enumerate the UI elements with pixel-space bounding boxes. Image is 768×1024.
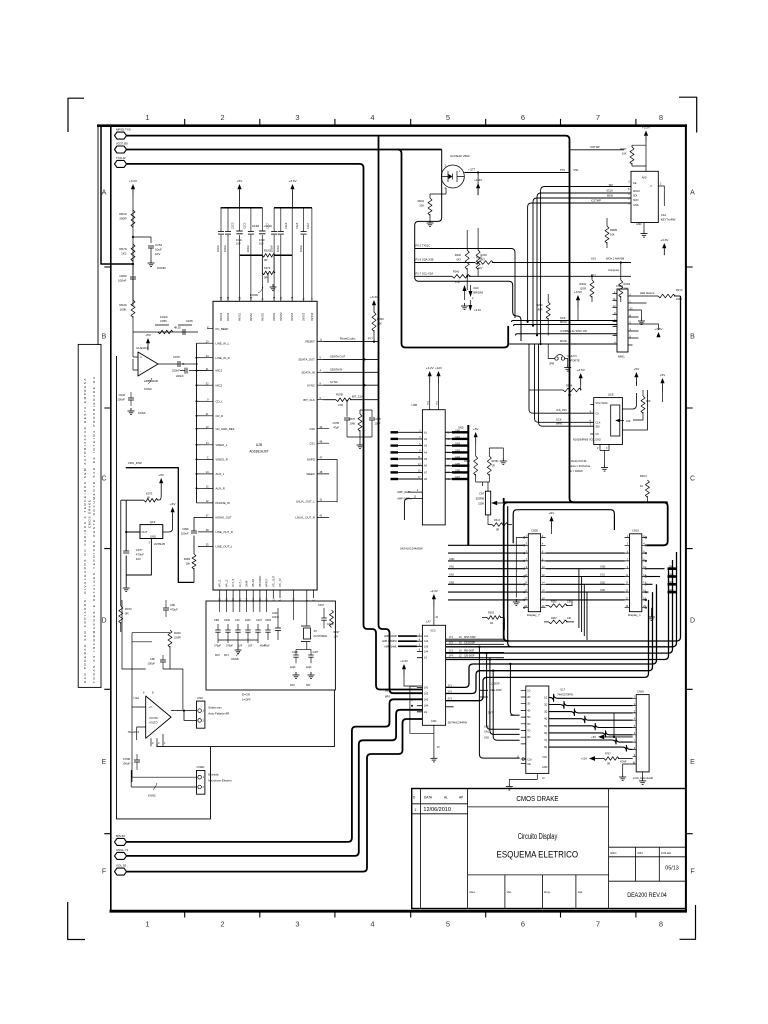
svg-text:GND: GND (633, 204, 639, 207)
U20 bottom pins (220, 590, 314, 598)
svg-text:MONO_OUT: MONO_OUT (216, 516, 232, 520)
capacitor C07B (346, 400, 348, 417)
frame row ticks left (104, 267, 111, 834)
svg-text:KON0: KON0 (138, 411, 146, 415)
U17 feeder GN1 (490, 660, 520, 735)
svg-text:2A1: 2A1 (424, 686, 429, 689)
svg-text:4K15: 4K15 (174, 326, 181, 330)
svg-text:AP: AP (459, 796, 463, 800)
svg-text:AD1881AJST: AD1881AJST (249, 450, 268, 454)
svg-text:OE: OE (527, 763, 531, 766)
svg-text:GND: GND (431, 720, 437, 723)
junction dots i2c (466, 275, 468, 277)
resistor R2NN (487, 456, 491, 476)
resistor R3D4 (619, 280, 623, 297)
svg-text:10uF: 10uF (236, 238, 242, 242)
svg-text:100nF: 100nF (277, 244, 280, 252)
svg-text:2: 2 (220, 920, 224, 929)
svg-text:SCLK: SCLK (606, 189, 613, 193)
capacitor C90 (163, 607, 169, 609)
wire top right stub (570, 149, 624, 151)
svg-text:SYNC: SYNC (330, 380, 338, 384)
svg-text:200R: 200R (119, 217, 127, 221)
resistor R0NB (605, 226, 609, 243)
resistor R064 (563, 388, 581, 392)
svg-text:K273: K273 (264, 266, 271, 270)
power +6V mid (171, 507, 175, 512)
U17 left pins (521, 690, 526, 744)
svg-text:CD_GND_REF: CD_GND_REF (216, 427, 235, 431)
svg-text:VCC: VCC (430, 630, 435, 633)
MW1 left pins (613, 294, 618, 345)
svg-text:R202: R202 (455, 253, 462, 257)
svg-text:KP0: KP0 (215, 654, 220, 657)
U20 left pins (207, 329, 213, 547)
svg-text:DIN.: DIN. (638, 851, 644, 855)
svg-text:VIDEO_R: VIDEO_R (216, 458, 228, 462)
svg-text:13K: 13K (567, 601, 572, 604)
resistor R07B bit clock (323, 399, 336, 401)
svg-text:6Q: 6Q (544, 732, 547, 735)
svg-text:C1E3: C1E3 (285, 222, 288, 229)
wire LINE_OUT (198, 532, 207, 547)
svg-text:GND: GND (458, 427, 464, 430)
svg-text:AVSS3: AVSS3 (261, 313, 264, 321)
svg-text:GN3: GN3 (669, 589, 675, 592)
svg-text:LINE_IN_L: LINE_IN_L (216, 341, 230, 345)
svg-text:R0NB: R0NB (610, 228, 617, 232)
svg-text:+: + (140, 356, 142, 360)
svg-text:P1-5 SDA-X3B: P1-5 SDA-X3B (416, 258, 434, 262)
svg-text:A: A (690, 190, 695, 197)
capacitors cap bank (218, 232, 224, 235)
svg-text:XTL_IN: XTL_IN (279, 578, 282, 587)
U1B pins left (590, 405, 594, 435)
capacitor C050 (132, 260, 134, 275)
svg-text:74HC573PW: 74HC573PW (557, 693, 573, 697)
svg-text:8Q: 8Q (544, 746, 547, 749)
svg-text:C070: C070 (173, 355, 180, 359)
svg-text:R3x3: R3x3 (494, 519, 500, 522)
svg-text:R2NN: R2NN (492, 460, 499, 463)
svg-text:U4B: U4B (412, 403, 418, 407)
power +12V U40 (436, 371, 440, 376)
svg-text:OUT: OUT (142, 530, 148, 534)
svg-text:CN1: CN1 (600, 574, 605, 577)
svg-text:TX0.J2: TX0.J2 (116, 156, 126, 160)
svg-text:CD_L: CD_L (216, 399, 224, 403)
svg-text:LCD_CELULAR: LCD_CELULAR (633, 776, 653, 780)
svg-text:3: 3 (295, 920, 299, 929)
svg-text:DATA: DATA (424, 796, 433, 800)
capacitor C070 (158, 363, 178, 365)
trimmer CN7 (485, 491, 490, 515)
svg-text:C050: C050 (119, 274, 127, 278)
svg-text:MOSI: MOSI (560, 339, 567, 343)
U17 feeder GN2 (493, 671, 519, 741)
svg-text:+5V: +5V (549, 511, 556, 515)
svg-text:10pF: 10pF (375, 422, 381, 426)
frame row ticks right (686, 267, 693, 834)
svg-text:370pF: 370pF (214, 645, 222, 648)
cap bank wires right (274, 208, 312, 301)
bus wire I/O37 drop (398, 150, 509, 348)
power +3.2V U40 (428, 371, 432, 376)
U17 feeder DVT (510, 664, 514, 715)
svg-text:LED Alarme: LED Alarme (640, 291, 655, 295)
svg-text:100nF: 100nF (117, 398, 125, 402)
svg-text:R3Y2: R3Y2 (676, 288, 683, 292)
svg-text:AMP_/AMP: AMP_/AMP (397, 491, 410, 494)
resistor R076 (358, 414, 362, 431)
svg-text:R040: R040 (119, 303, 127, 307)
svg-text:C097: C097 (318, 604, 325, 607)
resistor R072 (119, 606, 123, 623)
resistor K273 (262, 271, 275, 275)
jumper JPM (555, 357, 558, 360)
electroly cap C097b (275, 627, 281, 629)
svg-text:KONF: KONF (620, 762, 627, 764)
svg-text:0R: 0R (568, 393, 571, 397)
wire to C151 (133, 237, 151, 243)
svg-text:LA7: LA7 (426, 620, 431, 624)
svg-text:R263: R263 (536, 303, 543, 307)
svg-text:SDI: SDI (633, 195, 637, 198)
svg-text:BIT_CLK: BIT_CLK (352, 395, 363, 399)
frame top border (97, 124, 687, 127)
svg-text:Q19: Q19 (150, 520, 156, 524)
svg-text:C1E7: C1E7 (307, 222, 310, 229)
svg-text:100uF: 100uF (122, 762, 130, 766)
wire MOSI (508, 343, 617, 345)
svg-text:C: C (630, 300, 632, 303)
svg-text:+3.3V: +3.3V (660, 238, 669, 242)
wire RESET (323, 341, 378, 343)
svg-text:Display_7: Display_7 (527, 613, 540, 617)
latch U17 body (526, 686, 549, 773)
svg-text:VOUTA: VOUTA (149, 716, 158, 720)
svg-text:GN1: GN1 (455, 436, 461, 439)
svg-text:2A4: 2A4 (424, 705, 429, 708)
U20 left pin labels (216, 327, 235, 549)
display bus risers right (446, 296, 681, 641)
U1B bottom pins (600, 445, 609, 465)
U40 top wires (430, 383, 439, 410)
wire MONO_OUT (194, 516, 207, 518)
svg-text:16V: 16V (259, 242, 264, 246)
latch U1B (594, 398, 623, 445)
svg-text:KON2: KON2 (148, 794, 156, 798)
capacitors 22pF (293, 654, 298, 656)
svg-text:Eng.: Eng. (544, 890, 550, 894)
svg-text:220nF: 220nF (176, 374, 184, 378)
svg-text:R0S0: R0S0 (377, 317, 384, 321)
svg-text:SYNC: SYNC (307, 383, 315, 387)
svg-text:CS1: CS1 (309, 441, 315, 445)
svg-text:C046: C046 (119, 393, 126, 397)
resistor K071 (121, 499, 144, 501)
svg-text:IMPORTE: IMPORTE (568, 359, 580, 363)
svg-text:10uF: 10uF (259, 238, 265, 242)
resistor R3Y2 (658, 294, 675, 298)
svg-text:C79M: C79M (123, 757, 131, 761)
svg-text:22pF: 22pF (306, 666, 312, 669)
resistor R044 (430, 188, 446, 198)
svg-text:+5V: +5V (660, 373, 667, 377)
svg-text:Apr.: Apr. (578, 890, 584, 894)
resistor R303 (487, 616, 501, 620)
svg-text:1202: 1202 (272, 612, 278, 615)
svg-text:+3.5V: +3.5V (654, 327, 663, 331)
svg-text:2Y2: 2Y2 (448, 691, 453, 694)
keypad IC U10 (631, 171, 658, 222)
svg-text:5: 5 (446, 920, 450, 929)
wire bundle left of U17 (480, 690, 488, 697)
power +3.3V IR (476, 183, 480, 188)
label KON0 (148, 378, 152, 384)
svg-text:SCK: SCK (560, 316, 566, 320)
ground u40r (502, 458, 504, 461)
SPI risers (528, 203, 631, 322)
svg-text:/CS_P01: /CS_P01 (556, 408, 567, 412)
svg-text:R262: R262 (551, 601, 557, 604)
trimmer inside U1B (611, 405, 620, 436)
title block revision table (420, 789, 422, 909)
svg-text:AMP /1AMPLI: AMP /1AMPLI (382, 640, 397, 643)
svg-text:1: 1 (145, 920, 149, 929)
wire into opamp (132, 316, 134, 357)
svg-text:AMP /1AML: AMP /1AML (384, 645, 397, 648)
svg-text:12/06/2010: 12/06/2010 (423, 807, 451, 813)
svg-text:10K: 10K (646, 399, 651, 403)
svg-text:SDATA IN: SDATA IN (330, 367, 342, 371)
svg-text:100nF: 100nF (272, 616, 280, 619)
svg-text:Entrada: Entrada (208, 773, 219, 777)
svg-text:0,8x4(x=C0,5k: 0,8x4(x=C0,5k (569, 459, 587, 463)
svg-text:5D: 5D (527, 716, 530, 719)
buffer U40 body (422, 410, 445, 525)
wire r212 r2nn (476, 448, 504, 482)
power +3.5V spi (576, 295, 580, 300)
U10 left pin labels (633, 182, 641, 207)
svg-text:DVT: DVT (488, 712, 493, 715)
svg-text:3: 3 (295, 113, 299, 122)
svg-text:MW1: MW1 (618, 355, 625, 359)
svg-text:R07B: R07B (336, 393, 343, 397)
svg-text:A00: A00 (642, 176, 647, 180)
svg-text:Faixa = 33 Portas: Faixa = 33 Portas (569, 464, 591, 468)
svg-text:CN7: CN7 (479, 492, 485, 496)
IR receiver box route (415, 150, 521, 342)
svg-text:0R: 0R (496, 529, 499, 532)
svg-text:7D: 7D (527, 730, 530, 733)
svg-text:C9F: C9F (150, 657, 155, 661)
svg-text:GN3: GN3 (449, 581, 455, 584)
svg-text:SDATA OUT: SDATA OUT (330, 354, 346, 358)
connector CN20 (636, 695, 649, 772)
MW1 right pins (628, 296, 633, 345)
svg-text:GND: GND (542, 766, 548, 769)
svg-text:470uF: 470uF (170, 608, 178, 612)
ground DA0 (464, 303, 466, 306)
svg-text:GN1: GN1 (669, 566, 675, 569)
svg-text:PT6: PT6 (560, 168, 565, 172)
power +3.5V U10 (644, 131, 648, 136)
audio section return wire (157, 690, 334, 747)
svg-text:U17: U17 (560, 688, 565, 692)
svg-text:WOe 2 MAVD8: WOe 2 MAVD8 (606, 257, 625, 261)
svg-text:C/D-DISP: C/D-DISP (464, 655, 475, 658)
svg-text:1A1: 1A1 (424, 635, 429, 638)
svg-text:CLK: CLK (527, 759, 532, 762)
svg-text:MPS: MPS (385, 696, 391, 699)
svg-text:+3.2V: +3.2V (129, 179, 138, 183)
svg-text:P1-7 SCL-X3A: P1-7 SCL-X3A (416, 271, 434, 275)
svg-text:220uF: 220uF (181, 532, 189, 536)
svg-text:AL: AL (444, 796, 448, 800)
power +5V opamp (146, 338, 150, 343)
svg-text:R076: R076 (349, 417, 356, 421)
svg-text:220nF: 220nF (172, 369, 180, 373)
svg-text:GN6: GN6 (455, 470, 461, 473)
wire SCK (512, 321, 618, 323)
svg-text:/RST-DISP: /RST-DISP (464, 636, 476, 639)
wire IR out (464, 172, 570, 174)
ground C077 (125, 585, 127, 588)
U40 D wires left (391, 432, 423, 479)
svg-text:3D: 3D (527, 703, 530, 706)
svg-text:VIDEO_L: VIDEO_L (216, 443, 228, 447)
frame right border (685, 124, 687, 912)
svg-text:1D: 1D (527, 689, 530, 692)
U17 right pins labels (544, 696, 547, 749)
svg-text:05/13: 05/13 (665, 866, 679, 872)
resistor 10K u1b right (641, 396, 645, 413)
svg-text:C059: C059 (160, 319, 167, 323)
svg-text:1K: 1K (640, 484, 643, 488)
svg-text:EAPD: EAPD (307, 458, 315, 462)
svg-text:N1600NRW9 VC0_GN2: N1600NRW9 VC0_GN2 (573, 438, 601, 442)
svg-text:5: 5 (446, 113, 450, 122)
svg-text:/CSTWP: /CSTWP (591, 199, 601, 203)
U47 1Y wires (446, 639, 504, 658)
CN35 left wire fan (448, 545, 523, 600)
svg-text:10V: 10V (334, 636, 339, 639)
svg-text:WLW: WLW (607, 194, 614, 198)
wire LED alarme (633, 295, 659, 297)
svg-text:U2B: U2B (256, 443, 262, 447)
svg-text:R040: R040 (476, 256, 483, 260)
svg-text:220K: 220K (676, 297, 682, 301)
svg-text:Circuito Display: Circuito Display (518, 832, 558, 841)
svg-text:MIC1: MIC1 (216, 369, 223, 373)
svg-text:DS1: DS1 (574, 168, 580, 172)
svg-text:AUX_L: AUX_L (216, 472, 225, 476)
svg-text:DA0: DA0 (474, 286, 480, 290)
CN35 left pins (523, 538, 528, 608)
wire opamp top (122, 600, 183, 710)
U40 D labels (393, 431, 397, 481)
bus wire ANGL.71 (127, 710, 423, 856)
power +5V mid (159, 478, 163, 483)
capacitor C79B (134, 759, 140, 761)
svg-text:PC_BEEP: PC_BEEP (216, 327, 229, 331)
DAC section box (206, 601, 335, 690)
svg-text:220K: 220K (478, 502, 484, 506)
svg-text:GN7: GN7 (455, 476, 461, 479)
svg-text:LINE_OUT_R: LINE_OUT_R (216, 530, 233, 534)
U20 left bus (196, 343, 198, 503)
svg-text:4K7: 4K7 (478, 266, 483, 270)
svg-text:C207: C207 (313, 651, 319, 654)
svg-text:R064: R064 (566, 384, 573, 388)
svg-text:45uF: 45uF (264, 645, 270, 648)
svg-text:0R: 0R (264, 258, 267, 262)
title block right cells (609, 846, 686, 848)
svg-text:100uF: 100uF (147, 662, 155, 666)
svg-text:LM78L05: LM78L05 (154, 542, 166, 546)
svg-text:10V: 10V (155, 252, 160, 256)
svg-text:6: 6 (521, 113, 525, 122)
svg-text:10V: 10V (136, 557, 141, 561)
U47 2A extra dots (411, 699, 413, 701)
svg-text:C20Y: C20Y (256, 619, 263, 622)
svg-text:C9B: C9B (214, 619, 219, 622)
svg-text:PHONE_IN: PHONE_IN (216, 501, 230, 505)
U20 bottom pin labels (219, 575, 282, 587)
svg-text:4: 4 (370, 113, 374, 122)
svg-text:1A3: 1A3 (424, 645, 429, 648)
power +3.3V U47 (432, 594, 436, 599)
svg-text:AUX_R: AUX_R (216, 487, 225, 491)
svg-text:Display_1: Display_1 (628, 613, 641, 617)
wire LNLVL (323, 501, 337, 517)
svg-text:GN2: GN2 (449, 574, 455, 577)
svg-text:/CSTWP: /CSTWP (590, 146, 600, 149)
U20 right pins (317, 342, 323, 518)
wire mw1 spare (633, 303, 647, 338)
svg-text:+ 5TT: + 5TT (468, 168, 476, 172)
wire opamp output (171, 711, 196, 721)
wire EAPD (323, 459, 337, 502)
svg-text:LINE_IN_R: LINE_IN_R (216, 356, 230, 360)
svg-text:Microfone Electret: Microfone Electret (208, 779, 231, 783)
wire Q19 gnd (126, 539, 151, 576)
power +5V right col (660, 378, 664, 383)
svg-text:DVDD1: DVDD1 (273, 312, 276, 321)
svg-text:FILT_L: FILT_L (239, 579, 242, 587)
wire COMMS (516, 334, 618, 336)
U20 top pins (221, 300, 312, 302)
svg-text:DX49: DX49 (246, 580, 249, 587)
feedback network C059 (133, 325, 198, 332)
svg-text:VCC: VCC (542, 756, 547, 759)
svg-text:+Y: +Y (149, 705, 153, 709)
svg-text:4D: 4D (527, 709, 530, 712)
svg-text:10uF: 10uF (155, 248, 162, 252)
power +5V CN20 (598, 735, 604, 740)
svg-text:AVDD1: AVDD1 (220, 312, 223, 321)
svg-text:R303: R303 (488, 612, 495, 615)
power +3.3V U47b (402, 664, 406, 669)
svg-text:100nF: 100nF (247, 244, 250, 252)
power +3.2V top-left (131, 184, 135, 189)
svg-text:Saida som: Saida som (208, 706, 222, 710)
power +3.5V MW1 (656, 332, 660, 337)
frame left outer segment (97, 125, 99, 345)
svg-text:10k: 10k (186, 562, 191, 566)
DAC cap wires (220, 598, 267, 612)
